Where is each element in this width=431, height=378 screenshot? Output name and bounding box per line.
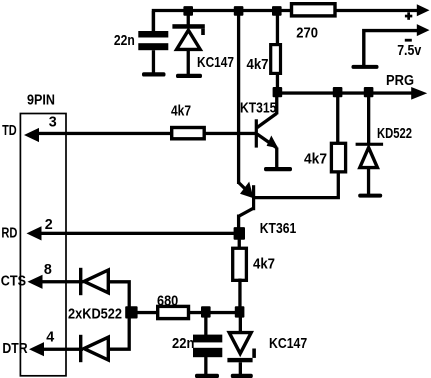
zener KC147 bottom (227, 313, 256, 374)
svg-text:22n: 22n (172, 336, 194, 352)
svg-text:KC147: KC147 (197, 55, 234, 71)
ground of bottom 22n (195, 374, 219, 378)
node CTS/DTR junction square (125, 306, 137, 318)
wire right 4k7 to PRG node (336, 96, 339, 143)
ground of top KC147 (176, 74, 202, 78)
ground of 22n cap (142, 72, 166, 76)
svg-text:8: 8 (44, 262, 52, 278)
svg-text:KT315: KT315 (240, 100, 276, 116)
svg-text:KT361: KT361 (260, 221, 296, 237)
wire from +rail node C down to 4k7 and PRG node (276, 10, 279, 91)
svg-text:4k7: 4k7 (247, 57, 269, 73)
node PRG junction above KD522 (364, 87, 374, 97)
svg-text:4k7: 4k7 (253, 256, 275, 272)
svg-text:3: 3 (49, 115, 57, 131)
svg-text:TD: TD (2, 123, 17, 139)
svg-text:CTS: CTS (1, 273, 26, 289)
arrow PRG output terminal (411, 87, 427, 100)
wire RD line (41, 232, 239, 235)
node PRG junction above right 4k7 (333, 87, 343, 97)
svg-text:2: 2 (45, 217, 53, 233)
9PIN connector box (20, 114, 66, 376)
node C junction on +rail above 4k7 (272, 6, 282, 16)
wire bottom line junction to 680 to nodes (129, 311, 241, 314)
label + (405, 12, 412, 19)
svg-text:4: 4 (46, 329, 54, 345)
capacitor 22n bottom (193, 313, 222, 375)
svg-text:7.5v: 7.5v (397, 43, 421, 59)
svg-text:4k7: 4k7 (171, 103, 191, 119)
node PRG-collector junction (273, 87, 283, 97)
wire CTS line (41, 280, 84, 283)
ground of -7.5v supply (352, 65, 379, 69)
diode VD4 KD522 on DTR (79, 335, 108, 362)
wire from +rail node B down to KT361 emitter (237, 10, 240, 184)
svg-text:DTR: DTR (2, 341, 28, 357)
wire DTR line (42, 348, 83, 351)
wire DTR diode to junction (108, 318, 129, 349)
ground of KT315 emitter (264, 167, 292, 171)
svg-text:9PIN: 9PIN (27, 92, 55, 108)
wire -7.5v supply (364, 31, 420, 65)
node KT361 collector / RD junction (234, 227, 245, 240)
arrow pin8 CTS (28, 275, 43, 289)
svg-text:4k7: 4k7 (304, 151, 327, 167)
wire TD line (38, 132, 256, 135)
transistor KT361 (237, 182, 255, 230)
node above KC147 bottom (235, 306, 245, 317)
zener KC147 top (172, 13, 204, 74)
ground of bottom KC147 (231, 374, 253, 378)
resistor 270 (292, 4, 336, 16)
svg-text:2xKD522: 2xKD522 (68, 307, 122, 323)
arrow +V supply terminal (417, 4, 430, 16)
arrow pin2 RD (27, 226, 42, 240)
svg-text:22n: 22n (114, 33, 135, 49)
node B junction on +rail above KT361 emitter wire (234, 6, 244, 16)
svg-text:270: 270 (296, 26, 318, 42)
transistor KT315 (255, 96, 279, 168)
wire CTS diode to junction (108, 282, 129, 312)
node above 22n bottom cap (201, 306, 211, 317)
resistor 680 (158, 306, 189, 318)
node A junction on +rail above KC147 (183, 6, 193, 16)
arrow -7.5v terminal (417, 24, 430, 36)
arrow pin4 DTR (29, 342, 44, 356)
ground of KD522 (358, 194, 382, 198)
resistor 4k7 right vertical (331, 143, 345, 172)
svg-text:KC147: KC147 (269, 336, 307, 352)
wire 4k7 down to bottom node (238, 279, 241, 313)
label minus (405, 39, 412, 42)
svg-text:680: 680 (157, 294, 178, 310)
wire from KT361 collector node down to 4k7 (238, 236, 241, 248)
wire KT361 base to right 4k7 (255, 171, 338, 198)
resistor 4k7 below KT361 (233, 248, 247, 280)
svg-text:RD: RD (1, 226, 17, 242)
svg-text:KD522: KD522 (377, 126, 412, 142)
svg-text:PRG: PRG (386, 73, 414, 89)
diode KD522 (356, 96, 384, 195)
resistor 4k7 on TD line (172, 128, 205, 139)
resistor 4k7 top vertical (271, 45, 281, 74)
capacitor 22n top-left (138, 11, 168, 73)
wire +V top rail (153, 11, 420, 32)
arrow pin3 TD (24, 128, 39, 142)
diode VD3 KD522 on CTS (79, 268, 108, 295)
wire PRG line (275, 91, 416, 94)
